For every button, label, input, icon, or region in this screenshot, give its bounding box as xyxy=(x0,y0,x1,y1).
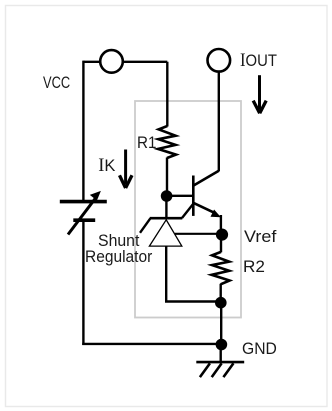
wire base xyxy=(167,195,193,197)
shunt regulator U1 cathode bar xyxy=(150,217,183,220)
wire emitter to Vref node xyxy=(220,215,222,234)
arrow IK current xyxy=(120,150,133,189)
node GND junction dot xyxy=(216,339,228,351)
terminal VCC xyxy=(100,50,123,73)
arrow IOUT current xyxy=(253,75,266,113)
node Vref junction dot xyxy=(216,229,228,241)
variable source plates xyxy=(60,200,107,204)
wire bottom horizontal to GND node xyxy=(82,343,221,345)
shunt regulator U1 cathode wire xyxy=(165,196,167,218)
wire GND stub xyxy=(219,345,221,362)
dashed block box around shunt regulator section xyxy=(135,101,241,318)
shunt regulator U1 right link to emitter xyxy=(182,204,194,219)
label GND xyxy=(242,340,277,359)
resistor R1 xyxy=(158,126,176,158)
node R2 bottom junction dot xyxy=(215,297,227,309)
resistor R2 xyxy=(212,252,230,284)
label Vref xyxy=(244,228,276,247)
label IK xyxy=(98,156,115,177)
wire down to GND node xyxy=(220,303,222,345)
wire anode to R2 bottom xyxy=(165,300,221,302)
ground symbol xyxy=(196,362,244,377)
variable source adjust arrow xyxy=(68,191,101,235)
wire R2 to bottom node xyxy=(219,284,221,303)
wire R1 to node A xyxy=(166,158,168,197)
label Regulator xyxy=(85,248,152,267)
transistor Q1 emitter with arrow xyxy=(194,203,221,217)
wire anode down xyxy=(165,246,167,302)
wire R1 branch vertical xyxy=(166,62,168,127)
transistor Q1 base bar xyxy=(192,176,195,216)
label R2 xyxy=(243,258,265,277)
wire IOUT down (collector lead) xyxy=(218,72,220,172)
wire Vref to R2 xyxy=(220,234,222,252)
transistor Q1 collector xyxy=(194,171,219,186)
shunt regulator U1 ref line xyxy=(175,233,221,235)
label R1 xyxy=(137,134,156,153)
shunt regulator U1 triangle xyxy=(149,220,181,246)
node A junction dot xyxy=(161,190,173,202)
label IOUT xyxy=(240,51,277,72)
shunt regulator U1 left tick xyxy=(140,218,150,232)
wire top horizontal VCC to R1 branch xyxy=(83,61,167,63)
wire left rail vertical xyxy=(82,61,84,200)
label VCC xyxy=(43,74,70,93)
wire left rail lower xyxy=(82,222,84,345)
terminal IOUT xyxy=(208,49,231,72)
label Shunt xyxy=(98,232,139,251)
